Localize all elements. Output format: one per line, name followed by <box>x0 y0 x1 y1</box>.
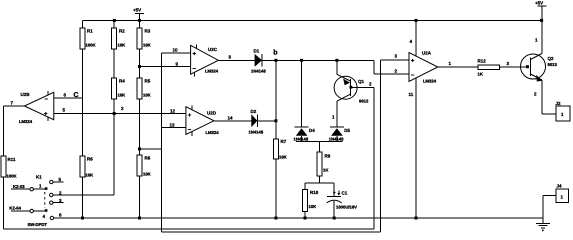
svg-text:SW-DPDT: SW-DPDT <box>28 222 48 227</box>
node junction b at D4 <box>300 59 303 62</box>
svg-text:J2: J2 <box>556 101 562 106</box>
wire U2C + input <box>162 52 191 54</box>
bottom rail divider tap to U2A+ <box>162 231 381 233</box>
connector J2 <box>542 101 570 121</box>
resistor R5 <box>137 78 151 155</box>
svg-text:11: 11 <box>409 92 414 97</box>
svg-text:Q2: Q2 <box>548 56 555 61</box>
svg-text:100K: 100K <box>7 173 17 178</box>
node junction R3-R5 divider <box>138 65 141 68</box>
transistor Q2 (NPN) <box>521 6 558 114</box>
wire node b step down to U2A inverting input <box>374 60 409 74</box>
svg-text:10K: 10K <box>118 93 126 98</box>
svg-text:13: 13 <box>170 123 176 128</box>
power +5V symbol left <box>133 8 144 21</box>
diode D5 <box>329 101 351 141</box>
wire D4/D5 anode bus to R9 <box>296 142 343 153</box>
svg-text:+: + <box>411 59 415 65</box>
svg-text:R1: R1 <box>87 29 93 34</box>
wire J4 down to ground rail <box>542 196 544 224</box>
linkage dashes <box>44 192 46 208</box>
throw 2a <box>50 201 53 204</box>
svg-text:R6: R6 <box>87 157 93 162</box>
node junction b at R7 <box>274 59 277 62</box>
wire U2A output <box>438 66 478 68</box>
svg-text:1000U/16V: 1000U/16V <box>336 205 357 210</box>
svg-text:10K: 10K <box>143 172 151 177</box>
svg-text:10: 10 <box>173 48 179 53</box>
op-amp U2B (left pointing) <box>11 91 67 124</box>
diode D1 <box>251 49 266 74</box>
resistor R12 (horizontal) <box>478 59 528 77</box>
svg-text:U2A: U2A <box>422 51 432 56</box>
wire U2C output to node b <box>218 59 373 61</box>
svg-text:LM324: LM324 <box>19 119 33 124</box>
wire split to R10 and C1 <box>305 183 334 196</box>
ground symbol <box>536 223 550 231</box>
svg-text:100K: 100K <box>86 43 96 48</box>
node junction ground rail C1 <box>333 217 336 220</box>
svg-text:14: 14 <box>228 116 234 121</box>
wire U2B inverting input to R1 <box>54 97 83 99</box>
resistor R3 <box>137 20 151 78</box>
wire U2B output to left edge <box>4 106 25 156</box>
diode D2 <box>249 109 264 135</box>
svg-text:R8: R8 <box>145 156 151 161</box>
svg-text:b: b <box>273 48 277 56</box>
resistor R8 <box>137 155 151 218</box>
svg-text:KZ-04: KZ-04 <box>9 206 21 211</box>
svg-text:R7: R7 <box>281 139 287 144</box>
svg-text:+5V: +5V <box>133 8 141 13</box>
node junction top rail at U2A pin4 <box>415 19 418 22</box>
svg-text:10K: 10K <box>279 154 287 159</box>
node junction top rail at R2 <box>113 19 116 22</box>
resistor R11 (left edge) <box>1 156 17 229</box>
svg-text:10K: 10K <box>118 43 126 48</box>
resistor R10 <box>303 190 319 219</box>
svg-text:1N4148: 1N4148 <box>249 130 264 135</box>
svg-text:−: − <box>45 97 49 103</box>
resistor R4 <box>112 78 126 195</box>
svg-text:10K: 10K <box>86 173 94 178</box>
node junction node5 at R4 <box>113 112 116 115</box>
svg-text:1K: 1K <box>323 168 328 173</box>
svg-text:D5: D5 <box>344 128 350 133</box>
op-amp U2A <box>395 39 452 97</box>
svg-text:U2B: U2B <box>21 92 31 97</box>
throw 2b to ground rail <box>50 216 53 219</box>
svg-text:D1: D1 <box>254 49 260 54</box>
node junction top rail at R3 <box>138 19 141 22</box>
svg-text:1N4148: 1N4148 <box>294 136 309 141</box>
svg-text:Q1: Q1 <box>358 79 365 84</box>
op-amp U2D <box>170 106 234 136</box>
node junction ground rail R8 <box>138 217 141 220</box>
node junction pin11 at ground rail <box>415 217 418 220</box>
wire U2A + input <box>380 59 409 61</box>
svg-text:R3: R3 <box>145 29 151 34</box>
svg-text:R9: R9 <box>325 154 331 159</box>
svg-text:LM324: LM324 <box>423 79 437 84</box>
svg-text:+: + <box>193 52 197 58</box>
resistor R1 <box>80 20 96 98</box>
op-amp U2C <box>173 44 232 76</box>
wire U2A power pin 4 <box>415 20 417 56</box>
node junction b at Q1 emitter <box>335 59 338 62</box>
wire U2A power pin 11 to ground rail <box>415 78 417 218</box>
node junction tap on R5-R8 lead <box>138 147 141 150</box>
svg-text:R4: R4 <box>119 79 125 84</box>
resistor R7 <box>273 60 286 218</box>
svg-text:1N4148: 1N4148 <box>329 136 344 141</box>
node junction ground rail R7 <box>274 217 277 220</box>
connector J4 <box>543 184 569 203</box>
node junction D2 at R7 lead <box>274 119 277 122</box>
svg-text:9012: 9012 <box>359 99 369 104</box>
wire U2D output through D2 to R7 node <box>214 120 276 122</box>
svg-text:10K: 10K <box>309 204 317 209</box>
wire node5 U2B+ / R4 / U2D+ <box>54 113 186 115</box>
throw 1b to R4 chain <box>50 193 53 196</box>
wire top +5V rail <box>83 19 542 21</box>
svg-text:−: − <box>411 73 415 79</box>
bottom feedback rail U2B out to Q1 base <box>4 228 374 230</box>
wire U2A + vertical to bottom feedback rail <box>379 60 381 232</box>
svg-text:+: + <box>44 112 48 118</box>
svg-text:KZ-03: KZ-03 <box>13 184 25 189</box>
resistor R6 <box>80 98 93 218</box>
svg-text:D2: D2 <box>251 109 257 114</box>
svg-text:9013: 9013 <box>548 62 558 67</box>
svg-text:10K: 10K <box>143 43 151 48</box>
svg-text:1N4148: 1N4148 <box>251 69 266 74</box>
svg-text:10K: 10K <box>143 93 151 98</box>
svg-text:1K: 1K <box>478 72 483 77</box>
svg-text:R10: R10 <box>310 190 319 195</box>
diode D4 <box>294 60 316 141</box>
svg-text:R2: R2 <box>119 29 125 34</box>
svg-text:D4: D4 <box>309 128 315 133</box>
wire U2C inverting input from divider <box>140 66 191 68</box>
power +5V symbol right <box>535 1 546 7</box>
svg-text:U2D: U2D <box>207 111 217 116</box>
throw 1a <box>50 180 53 183</box>
svg-text:−: − <box>188 128 192 134</box>
svg-text:−: − <box>193 67 197 73</box>
node junction ground rail R6 <box>81 217 84 220</box>
wire Q1 base down to bottom <box>373 88 375 230</box>
svg-text:K1: K1 <box>36 175 42 180</box>
ground rail (switch throw 2b to ground) <box>54 217 543 219</box>
svg-text:12: 12 <box>170 109 176 114</box>
wire R5/R8 tap to feedback line <box>140 148 162 150</box>
wire vertical feedback U2C+/U2D- <box>161 53 163 232</box>
node junction top rail at Q2 <box>540 19 543 22</box>
svg-text:U2C: U2C <box>208 47 218 52</box>
svg-text:J4: J4 <box>557 184 563 189</box>
resistor R2 <box>112 20 126 78</box>
svg-text:+: + <box>188 113 192 119</box>
switch K1 SW-DPDT <box>9 175 114 228</box>
svg-text:R11: R11 <box>8 157 17 162</box>
resistor R9 <box>317 152 331 183</box>
svg-text:LM324: LM324 <box>206 130 220 135</box>
svg-text:+5V: +5V <box>535 1 543 6</box>
svg-text:R5: R5 <box>145 79 151 84</box>
svg-text:LM324: LM324 <box>205 69 219 74</box>
capacitor C1 (electrolytic) <box>327 190 357 218</box>
wire U2D - input <box>162 126 186 128</box>
transistor Q1 (PNP) <box>334 60 374 103</box>
svg-text:+: + <box>333 190 336 195</box>
svg-text:R12: R12 <box>478 59 487 64</box>
svg-text:C1: C1 <box>342 191 348 196</box>
node junction ground rail R10 <box>304 217 307 220</box>
